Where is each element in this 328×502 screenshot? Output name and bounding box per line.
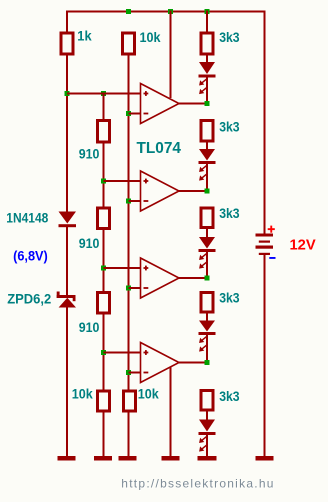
svg-text:910: 910 xyxy=(79,145,100,161)
ground terminal left rail xyxy=(58,456,76,461)
wire -in2 stub xyxy=(129,200,141,202)
LED2 xyxy=(199,149,216,181)
wire LED2 cathode down xyxy=(206,164,208,191)
ground terminal battery xyxy=(256,456,274,461)
label 1N4148 xyxy=(6,209,48,225)
wire right rail vertical (to battery +) xyxy=(264,11,266,235)
wire 10k to ground (divider) xyxy=(103,413,105,457)
wire output U1D xyxy=(179,362,207,364)
wire 3k3 to LED3 xyxy=(206,229,208,238)
wire -in3 stub xyxy=(129,287,141,289)
wire 3k3 to LED4 xyxy=(206,314,208,322)
wire op-amp V- to ground xyxy=(170,367,172,457)
label 910 (third) xyxy=(79,319,100,335)
resistor 910 (third) xyxy=(98,293,110,314)
svg-text:3k3: 3k3 xyxy=(219,388,240,404)
resistor 3k3 (stage 2) xyxy=(201,121,213,142)
label 3k3 (stage 1) xyxy=(219,29,240,45)
resistor 910 (first) xyxy=(98,121,110,143)
LED3 xyxy=(199,237,216,269)
node output U1C xyxy=(205,276,210,281)
battery 12V xyxy=(256,234,274,256)
node divider tap 2 / +in2 xyxy=(101,179,106,184)
label 3k3 (stage 4) xyxy=(219,290,240,306)
wire +in2 row xyxy=(104,180,141,182)
label 10k (top) xyxy=(140,29,161,45)
node -in2 xyxy=(126,199,131,204)
label 3k3 (stage 3) xyxy=(219,205,240,221)
ground terminal LED chain xyxy=(198,456,217,461)
op-amp U1A xyxy=(141,84,180,124)
node top rail at LED chain xyxy=(205,9,210,14)
node divider top / +in1 xyxy=(101,91,106,96)
resistor 3k3 (stage 4) xyxy=(201,293,213,313)
svg-text:3k3: 3k3 xyxy=(219,290,240,306)
wire +in4 row xyxy=(104,352,141,354)
resistor 3k3 (stage 3) xyxy=(201,208,213,228)
resistor 10k (bottom left) xyxy=(98,391,110,411)
wire 910-3 to 10k xyxy=(103,315,105,390)
ground terminal divider xyxy=(94,456,112,461)
wire output U1A xyxy=(179,103,207,105)
wire divider top lead xyxy=(103,94,105,120)
svg-text:3k3: 3k3 xyxy=(219,29,240,45)
node divider tap 3 / +in3 xyxy=(101,266,106,271)
svg-text:(6,8V): (6,8V) xyxy=(13,247,48,263)
wire op-amp V+ supply xyxy=(170,11,172,99)
op-amp U1C xyxy=(141,258,180,298)
svg-text:http://bsselektronika.hu: http://bsselektronika.hu xyxy=(121,477,274,491)
node -in4 xyxy=(126,370,131,375)
svg-text:3k3: 3k3 xyxy=(219,205,240,221)
op-amp U1D xyxy=(141,343,180,383)
wire 910-1 to 910-2 xyxy=(103,144,105,207)
label ZPD6,2 xyxy=(7,290,51,306)
ground terminal op-amp supply xyxy=(162,456,180,461)
wire 10k to ground (input) xyxy=(128,413,130,457)
wire output U1B xyxy=(179,190,207,192)
wire LED5 cathode down xyxy=(206,435,208,457)
LED5 xyxy=(199,420,216,452)
wire +in3 row xyxy=(104,267,141,269)
wire -in4 stub xyxy=(129,372,141,374)
wire LED1 cathode down xyxy=(206,78,208,104)
label 3k3 (stage 2) xyxy=(219,119,240,135)
wire 910-2 to 910-3 xyxy=(103,230,105,291)
node power rail tap xyxy=(168,9,173,14)
label (6,8V) xyxy=(13,247,48,263)
wire 3k3 to LED1 xyxy=(206,56,208,64)
node output U1B xyxy=(205,189,210,194)
wire left rail vertical xyxy=(66,11,68,32)
node output U1A xyxy=(205,101,210,106)
label 10k (bottom left) xyxy=(72,385,93,401)
resistor 10k (bottom right) xyxy=(124,391,136,411)
label 3k3 (stage 5) xyxy=(219,388,240,404)
svg-text:3k3: 3k3 xyxy=(219,119,240,135)
label 910 (first) xyxy=(79,145,100,161)
wire 3k3 to LED2 xyxy=(206,143,208,151)
wire 1N4148 to zener xyxy=(66,227,68,296)
label TL074 xyxy=(137,140,182,157)
svg-text:ZPD6,2: ZPD6,2 xyxy=(7,290,51,306)
svg-text:1k: 1k xyxy=(77,27,91,43)
resistor 10k (top) xyxy=(123,33,135,54)
wire top +12V rail xyxy=(66,11,266,13)
svg-text:10k: 10k xyxy=(72,385,93,401)
wire -in1 stub xyxy=(129,113,141,115)
svg-text:10k: 10k xyxy=(140,29,161,45)
ground terminal input column xyxy=(119,456,137,461)
op-amp U1B xyxy=(141,171,180,211)
svg-text:10k: 10k xyxy=(138,385,159,401)
wire 1k bottom to 1N4148 xyxy=(66,56,68,213)
zener diode ZPD6,2 xyxy=(57,292,76,308)
svg-text:1N4148: 1N4148 xyxy=(6,209,48,225)
svg-text:910: 910 xyxy=(79,235,100,251)
svg-text:910: 910 xyxy=(79,319,100,335)
node output U1D xyxy=(205,360,210,365)
wire battery - to ground xyxy=(264,255,266,457)
node -in3 xyxy=(126,286,131,291)
resistor 3k3 (stage 5) xyxy=(201,391,213,411)
wire 3k3 to LED5 xyxy=(206,412,208,421)
node left rail / +in1 xyxy=(65,91,70,96)
wire zener to ground xyxy=(66,307,68,457)
resistor 910 (second) xyxy=(98,208,110,229)
node divider tap 4 / +in4 xyxy=(101,350,106,355)
LED4 xyxy=(199,321,216,352)
footer url http://bsselektronika.hu xyxy=(121,477,275,492)
wire LED chain top lead xyxy=(206,11,208,32)
wire comparator input column xyxy=(128,56,130,390)
resistor 1k xyxy=(61,33,73,54)
diode D1 1N4148 xyxy=(59,212,77,228)
wire +in1 row xyxy=(67,93,141,95)
wire LED3 cathode down xyxy=(206,252,208,278)
resistor 3k3 (stage 1) xyxy=(201,33,213,54)
svg-text:12V: 12V xyxy=(290,236,316,253)
label 12V xyxy=(290,236,316,253)
wire LED4 cathode down xyxy=(206,335,208,363)
label 1k xyxy=(77,27,91,43)
svg-text:TL074: TL074 xyxy=(137,140,182,157)
wire output U1C xyxy=(179,277,207,279)
LED1 xyxy=(199,62,216,94)
label battery + terminal xyxy=(268,226,275,233)
label 910 (second) xyxy=(79,235,100,251)
node top rail at 10k xyxy=(126,9,131,14)
node -in1 xyxy=(126,111,131,116)
label battery - terminal xyxy=(269,257,275,259)
label 10k (bottom right) xyxy=(138,385,159,401)
